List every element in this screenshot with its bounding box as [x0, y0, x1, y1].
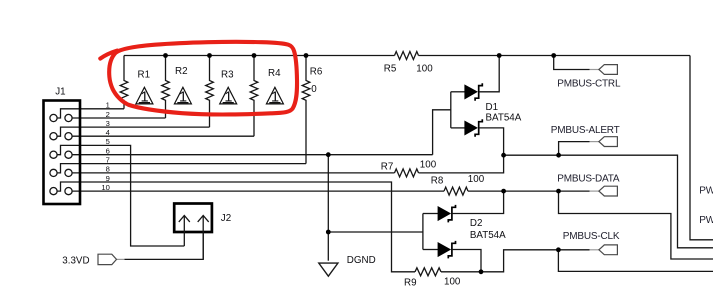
junction node ALERT tag tap: [556, 153, 561, 158]
svg-text:100: 100: [468, 174, 485, 185]
svg-text:R3: R3: [221, 69, 234, 80]
svg-text:R4: R4: [268, 68, 281, 79]
wire R8 to PMBUS-DATA tag: [468, 190, 590, 192]
svg-text:R5: R5: [384, 64, 397, 75]
svg-text:R9: R9: [404, 277, 417, 288]
wire DGND to D2 anodes: [328, 231, 423, 233]
power tag 3.3VD: [98, 254, 124, 264]
svg-text:10: 10: [101, 183, 109, 192]
diode D2 top (BAT54A half): [423, 191, 504, 222]
junction node rail-R4: [252, 53, 257, 58]
offpage tag PMBUS-CTRL: [590, 65, 618, 75]
connector J2: [174, 204, 212, 233]
svg-text:0: 0: [311, 84, 317, 95]
svg-text:1: 1: [106, 101, 110, 110]
resistor R8: [444, 187, 468, 195]
svg-text:8: 8: [106, 165, 110, 174]
wire CTRL tag drop from rail: [554, 56, 590, 70]
variant triangle marker of R4: [266, 87, 283, 104]
wire ALERT tag riser: [559, 142, 590, 156]
svg-text:6: 6: [106, 147, 110, 156]
resistor R9: [415, 268, 441, 276]
svg-text:BAT54A: BAT54A: [486, 113, 522, 124]
variant triangle marker of R2: [174, 87, 191, 104]
wire PMBUS-DATA drop to PW exit: [559, 191, 713, 259]
wire R7 to ALERT riser: [419, 155, 504, 173]
resistor R6: [302, 56, 310, 164]
wire 3.3VD to J2: [124, 232, 203, 259]
J1 pin circles: [50, 114, 72, 194]
junction node rail-D1 cathode: [497, 53, 502, 58]
junction node rail-R3: [207, 53, 212, 58]
svg-text:1: 1: [179, 89, 187, 105]
wire R9 to CLK riser: [441, 250, 590, 272]
wire 1 J1 pin1 to R1: [57, 109, 124, 118]
wire DGND vertical: [327, 155, 329, 261]
wire 5 J1 pin5 to J2: [57, 145, 184, 246]
svg-text:J1: J1: [55, 87, 65, 98]
svg-text:R8: R8: [431, 175, 444, 186]
resistor R1: [120, 56, 128, 109]
resistor R3: [206, 56, 214, 128]
connector J1: [44, 101, 81, 205]
svg-text:PMBUS-CLK: PMBUS-CLK: [563, 231, 620, 242]
svg-text:D2: D2: [470, 218, 483, 229]
wire 8 J1 pin8 to R7: [72, 172, 394, 174]
wire CLK drop to PW exit: [558, 250, 713, 272]
variant triangle marker of R1: [136, 87, 153, 104]
svg-text:PMBUS-DATA: PMBUS-DATA: [557, 173, 620, 184]
diode D1 bottom (BAT54A half): [451, 119, 504, 155]
wire 2 J1 pin2 to R2: [72, 117, 165, 119]
svg-text:1: 1: [271, 89, 279, 105]
svg-text:PMBUS-CTRL: PMBUS-CTRL: [557, 78, 621, 89]
svg-text:3: 3: [106, 119, 110, 128]
wire D2 anode join: [422, 214, 424, 250]
wire top rail left segment: [124, 55, 395, 57]
svg-text:7: 7: [106, 155, 110, 164]
resistor R5: [395, 52, 419, 60]
svg-text:9: 9: [106, 174, 110, 183]
svg-text:R2: R2: [175, 66, 188, 77]
svg-text:PW: PW: [699, 215, 713, 226]
svg-text:5: 5: [106, 137, 110, 146]
junction node rail-R2: [163, 53, 168, 58]
svg-text:2: 2: [106, 110, 110, 119]
junction node wire6-DGND: [326, 152, 331, 157]
svg-text:1: 1: [141, 89, 149, 105]
ground DGND symbol: [319, 263, 338, 276]
svg-text:R7: R7: [381, 161, 394, 172]
red annotation loop around R1-R4: [100, 51, 117, 59]
wire 6 DGND net J1 pin6 to D1 anodes: [72, 154, 433, 156]
diode D2 bottom (BAT54A half): [423, 241, 481, 272]
svg-text:100: 100: [420, 159, 437, 170]
resistor R7: [395, 169, 419, 177]
wire 3 J1 pin3 to R3: [57, 127, 209, 136]
svg-text:D1: D1: [486, 102, 499, 113]
svg-text:DGND: DGND: [347, 255, 376, 266]
resistor R4: [250, 56, 258, 137]
wire D1 anode join and tap to wire 6: [433, 92, 451, 155]
junction node rail-R6: [304, 53, 309, 58]
variant triangle marker of R3: [220, 87, 237, 104]
wire 4 J1 pin4 to R4: [72, 135, 254, 137]
offpage tag PMBUS-ALERT: [590, 137, 618, 147]
J2 pin 1 arrow: [179, 216, 190, 247]
svg-text:R1: R1: [138, 69, 151, 80]
wire PMBUS-ALERT horizontal: [504, 155, 713, 248]
wire 10 J1 pin10 to R8: [72, 190, 444, 192]
pin numbers 1-10: [101, 101, 109, 192]
svg-text:4: 4: [106, 128, 110, 137]
svg-text:J2: J2: [221, 213, 231, 224]
resistor R2: [162, 56, 170, 119]
wire 7 J1 pin7 to R6: [57, 164, 306, 173]
svg-text:BAT54A: BAT54A: [470, 230, 506, 241]
offpage tag PMBUS-CLK: [590, 245, 618, 255]
svg-text:3.3VD: 3.3VD: [62, 255, 89, 266]
svg-text:100: 100: [416, 63, 433, 74]
wire rail right drop to PW exit: [690, 56, 713, 240]
svg-text:PMBUS-ALERT: PMBUS-ALERT: [551, 125, 620, 136]
junction node DGND-D2 anodes: [326, 230, 331, 235]
svg-text:PW: PW: [699, 186, 713, 197]
junction node ALERT-D1-R7: [501, 153, 506, 158]
J2 pin 2 arrow: [198, 216, 209, 260]
wire top rail right segment: [419, 55, 691, 57]
junction node DATA-D2 cathode: [501, 189, 506, 194]
svg-text:1: 1: [224, 89, 232, 105]
junction node R9-D2 cathode: [479, 269, 484, 274]
offpage tag PMBUS-DATA: [590, 186, 618, 196]
junction node rail-CTRL tap: [551, 53, 556, 58]
junction node DATA tag tap: [556, 189, 561, 194]
svg-text:100: 100: [444, 276, 461, 287]
diode D1 top (BAT54A half): [451, 56, 499, 101]
svg-text:R6: R6: [310, 66, 323, 77]
wire 9 J1 pin9 down to R9: [57, 182, 415, 272]
junction node CLK tag tap: [556, 247, 561, 252]
